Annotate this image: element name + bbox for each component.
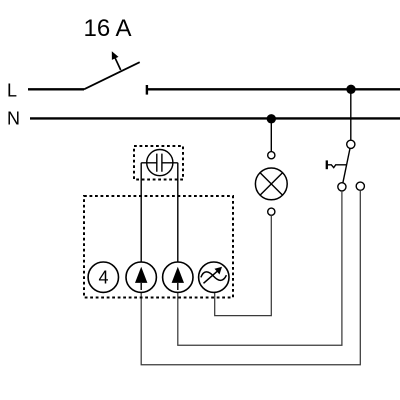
svg-text:L: L xyxy=(7,81,17,101)
svg-text:16 A: 16 A xyxy=(84,15,132,42)
svg-text:N: N xyxy=(7,109,20,129)
svg-text:4: 4 xyxy=(99,268,109,288)
